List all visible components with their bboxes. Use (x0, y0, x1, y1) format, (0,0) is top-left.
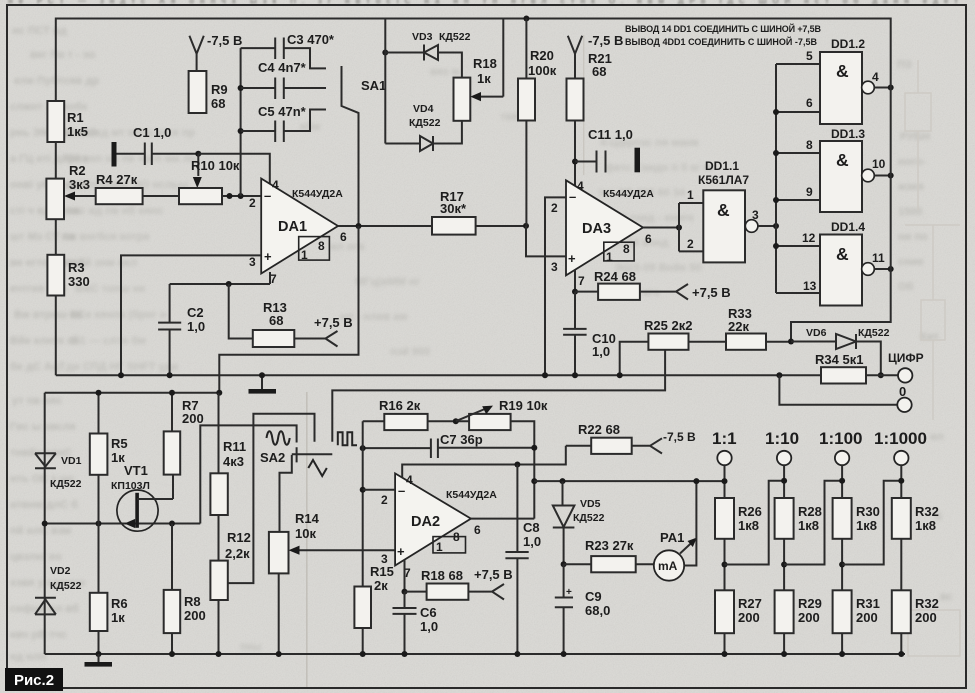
svg-text:ил нгв: ил нгв (330, 241, 365, 253)
svg-text:R26: R26 (738, 504, 762, 519)
svg-text:6: 6 (474, 523, 481, 537)
wire DD input bus (775, 64, 777, 293)
op-amp DA3 (566, 180, 643, 275)
svg-text:R34 5к1: R34 5к1 (815, 352, 863, 367)
svg-text:68: 68 (269, 313, 283, 328)
meter PA1 (654, 550, 684, 580)
wire R1-R2 (55, 142, 57, 179)
svg-text:R25 2к2: R25 2к2 (644, 318, 692, 333)
resistor R9 (189, 71, 207, 113)
gate DD1.4 (776, 246, 820, 293)
resistor R5 (98, 393, 100, 434)
svg-text:7: 7 (270, 272, 277, 286)
svg-text:КД522: КД522 (858, 327, 890, 339)
svg-text:К544УД2А: К544УД2А (603, 188, 654, 200)
node C1/R9/R10/DA1pin4 (195, 151, 201, 157)
resistor R25 (tapped) (620, 342, 649, 376)
resistor R28 (775, 498, 794, 539)
svg-text:твё: твё (500, 111, 518, 123)
svg-text:8: 8 (623, 242, 630, 256)
svg-text:1:1000: 1:1000 (874, 429, 927, 448)
wire DA1 +input (121, 255, 261, 375)
svg-text:0: 0 (899, 384, 906, 399)
svg-text:1к8: 1к8 (915, 518, 936, 533)
svg-text:R18 68: R18 68 (421, 568, 463, 583)
wire to DA1 pin4 (198, 154, 269, 184)
svg-text:РУБН: РУБН (900, 131, 930, 143)
svg-text:ВСе кянпк (брнг н: ВСе кянпк (брнг н (70, 309, 167, 321)
svg-text:R18: R18 (473, 56, 497, 71)
svg-text:13: 13 (803, 279, 817, 293)
DA2 pins 1/8 box (433, 537, 466, 553)
resistor R17 (432, 217, 476, 235)
svg-text:R22 68: R22 68 (578, 422, 620, 437)
svg-text:200: 200 (915, 610, 937, 625)
svg-text:C2: C2 (187, 305, 204, 320)
svg-text:1: 1 (606, 250, 613, 264)
gate DD1.2 (776, 64, 820, 112)
resistor R2 (pot) (46, 179, 64, 220)
Рис.2 caption box (5, 668, 63, 691)
svg-text:10: 10 (872, 157, 886, 171)
svg-text:–: – (264, 188, 271, 203)
wire DA3 output to DD1.1 (643, 227, 679, 229)
svg-text:4: 4 (406, 473, 413, 487)
svg-text:R31: R31 (856, 596, 880, 611)
wire capacitor bank bus (240, 48, 242, 196)
svg-text:DD1.1: DD1.1 (705, 159, 739, 173)
svg-text:12: 12 (802, 231, 816, 245)
svg-text:1: 1 (301, 248, 308, 262)
resistor R32b 200 (892, 590, 911, 633)
svg-text:1:1: 1:1 (712, 429, 737, 448)
svg-text:1к: 1к (477, 71, 491, 86)
svg-text:пзй 900: пзй 900 (390, 346, 430, 358)
svg-text:R11: R11 (223, 439, 246, 454)
svg-text:3: 3 (249, 255, 256, 269)
svg-text:68: 68 (211, 96, 225, 111)
wire R10 to DA1 pin2 (222, 195, 261, 197)
wire DA3 pin7 (574, 270, 576, 292)
svg-text:VD5: VD5 (580, 498, 601, 510)
svg-text:R15: R15 (370, 564, 394, 579)
svg-text:9: 9 (806, 185, 813, 199)
svg-text:+: + (397, 544, 405, 559)
svg-text:330: 330 (68, 274, 90, 289)
resistor R33 (689, 341, 727, 343)
switch SA1 (342, 66, 359, 226)
wire tap1 to column2 (725, 481, 785, 565)
svg-text:R28: R28 (798, 504, 822, 519)
wire DA2 output riser (471, 518, 534, 520)
svg-text:-7,5 В: -7,5 В (588, 33, 623, 48)
svg-text:1,0: 1,0 (187, 319, 205, 334)
svg-text:+7,5 В: +7,5 В (474, 567, 513, 582)
svg-text:1,0: 1,0 (523, 534, 541, 549)
transistor VT1 КП103Л (117, 490, 158, 531)
svg-text:Гис ы звсля: Гис ы звсля (10, 421, 76, 433)
svg-text:+: + (566, 587, 572, 598)
svg-text:2: 2 (687, 237, 694, 251)
supply -7.5V antenna at R21 (568, 36, 582, 79)
resistor R6 (98, 524, 100, 593)
svg-text:C11 1,0: C11 1,0 (588, 127, 633, 142)
terminal 0 (776, 372, 782, 378)
svg-text:ут пв няс: ут пв няс (12, 395, 62, 407)
wire R2-R3 (55, 219, 57, 255)
wire DA2 pin7 (404, 560, 406, 592)
wire R21 to DA3 pin4 (574, 121, 576, 187)
svg-text:ВЫВОД 4DD1 СОЕДИНИТЬ С ШИНОЙ -: ВЫВОД 4DD1 СОЕДИНИТЬ С ШИНОЙ -7,5В (625, 36, 818, 47)
svg-text:квч рВ тчс: квч рВ тчс (10, 629, 67, 641)
svg-text:8: 8 (318, 239, 325, 253)
svg-text:R32: R32 (915, 504, 939, 519)
svg-text:1к: 1к (111, 610, 125, 625)
capacitor C3 (241, 38, 326, 69)
svg-text:–: – (398, 483, 405, 498)
svg-text:200: 200 (738, 610, 760, 625)
svg-text:Рис.2: Рис.2 (14, 672, 54, 689)
terminal ЦИФР (898, 368, 912, 382)
resistor R27 (715, 590, 734, 633)
svg-text:7: 7 (578, 274, 585, 288)
ground symbol bottom-left (98, 654, 100, 662)
svg-text:R20: R20 (530, 48, 554, 63)
ground symbol near DA1 (261, 375, 263, 389)
svg-text:8: 8 (806, 138, 813, 152)
supply +7.5V flag at R24 (640, 284, 688, 300)
svg-text:+: + (568, 251, 576, 266)
op-amp DA1 (261, 179, 338, 274)
svg-text:1500: 1500 (898, 206, 922, 218)
svg-text:+7,5 В: +7,5 В (692, 285, 731, 300)
svg-text:R3: R3 (68, 260, 85, 275)
svg-text:1:100: 1:100 (819, 429, 862, 448)
svg-text:ди СПД НГ SHFT уди: ди СПД НГ SHFT уди (66, 361, 178, 373)
wire DA1 pin7 to C2/R13 (170, 272, 270, 284)
svg-text:PA1: PA1 (660, 530, 684, 545)
wire DA2 -input (363, 489, 395, 491)
svg-text:R14: R14 (295, 511, 320, 526)
svg-text:сние: сние (898, 256, 924, 268)
capacitor C7 (363, 439, 535, 459)
svg-text:DA2: DA2 (411, 514, 440, 530)
svg-text:6: 6 (806, 96, 813, 110)
svg-text:КД522: КД522 (50, 478, 82, 490)
svg-text:DD1.3: DD1.3 (831, 127, 865, 141)
svg-text:R24 68: R24 68 (594, 269, 636, 284)
svg-text:&: & (836, 150, 849, 170)
resistor R31 (833, 590, 852, 633)
svg-text:R10 10к: R10 10к (191, 158, 240, 173)
svg-text:К544УД2А: К544УД2А (446, 489, 497, 501)
svg-text:&: & (717, 200, 730, 220)
svg-text:1к8: 1к8 (798, 518, 819, 533)
gate DD1.3 (776, 153, 820, 200)
svg-text:ного-: ного- (898, 156, 927, 168)
svg-text:68: 68 (592, 64, 606, 79)
svg-text:R2: R2 (69, 163, 86, 178)
svg-text:VD1: VD1 (61, 455, 82, 467)
potentiometer R10 with top wiper arrow (197, 154, 199, 176)
svg-text:4к3: 4к3 (223, 454, 244, 469)
svg-text:DA3: DA3 (582, 221, 611, 237)
svg-text:оавс ид пв нб еянс: оавс ид пв нб еянс (60, 205, 164, 217)
svg-text:4: 4 (577, 179, 584, 193)
wire R12 tap to SA2 triangle feed (228, 414, 315, 583)
supply +7.5V flag at R13 (294, 331, 337, 347)
svg-text:22к: 22к (728, 319, 749, 334)
svg-text:-7,5 В: -7,5 В (207, 33, 242, 48)
svg-text:ни по: ни по (898, 231, 928, 243)
resistor R12 (tapped) (218, 515, 220, 561)
wire DA1out feedback to lower section (219, 226, 358, 393)
svg-text:пй нлС взм: пй нлС взм (10, 525, 71, 537)
svg-text:C3 470*: C3 470* (287, 32, 335, 47)
svg-text:вс: вс (940, 591, 953, 603)
wire DA2 pin4 supply line (402, 446, 566, 478)
svg-text:R8: R8 (184, 594, 201, 609)
svg-text:К561ЛА7: К561ЛА7 (698, 173, 749, 187)
wire R16/C7 left bus down to DA2 -input and R15 (362, 421, 364, 586)
svg-text:Об: Об (898, 281, 914, 293)
svg-text:C4 4n7*: C4 4n7* (258, 60, 307, 75)
svg-text:200: 200 (182, 411, 204, 426)
svg-text:R16 2к: R16 2к (379, 398, 421, 413)
op-amp DA2 (395, 473, 471, 565)
svg-text:1к8: 1к8 (856, 518, 877, 533)
svg-text:68,0: 68,0 (585, 603, 610, 618)
resistor R32 (892, 498, 911, 539)
svg-text:Кит: Кит (920, 331, 939, 343)
resistor R15 (354, 587, 371, 629)
svg-text:VD4: VD4 (413, 103, 434, 115)
diode VD2 (35, 598, 56, 615)
svg-text:ЦИФР: ЦИФР (888, 351, 924, 365)
resistor R23 (564, 563, 592, 565)
svg-text:11: 11 (872, 251, 885, 265)
svg-text:1к5: 1к5 (67, 124, 88, 139)
svg-text:VD6: VD6 (806, 327, 827, 339)
capacitor C6 (393, 592, 417, 654)
svg-text:200: 200 (184, 608, 206, 623)
resistor R1 (47, 101, 64, 142)
resistor R4 with wiper arrow to R2 (70, 195, 96, 197)
resistor R34 (821, 367, 866, 383)
svg-text:6-1 — слтн бм: 6-1 — слтн бм (70, 335, 146, 347)
svg-text:2: 2 (381, 493, 388, 507)
svg-text:&: & (836, 244, 849, 264)
svg-text:КД522: КД522 (409, 117, 441, 129)
svg-text:C1 1,0: C1 1,0 (133, 125, 171, 140)
svg-text:6: 6 (645, 232, 652, 246)
svg-text:1,0: 1,0 (420, 619, 438, 634)
svg-text:R19 10к: R19 10к (499, 398, 548, 413)
svg-text:1: 1 (436, 540, 443, 554)
svg-text:10к: 10к (295, 526, 316, 541)
wire DA3 +input from R17/R20 node (526, 226, 566, 257)
wire tap2 to column3 (784, 481, 842, 565)
resistor R11 (218, 393, 220, 474)
svg-text:mA: mA (658, 559, 678, 573)
diode VD6 (791, 334, 881, 375)
svg-text:2: 2 (249, 196, 256, 210)
wire R4-R10 (143, 195, 179, 197)
svg-text:вег Па т - эо: вег Па т - эо (30, 49, 96, 61)
svg-text:ПЗ: ПЗ (897, 59, 912, 71)
square wave symbol (338, 432, 357, 445)
svg-text:C5 47n*: C5 47n* (258, 104, 307, 119)
svg-text:R29: R29 (798, 596, 822, 611)
svg-text:ил: ил (930, 431, 944, 443)
svg-text:R23 27к: R23 27к (585, 538, 634, 553)
svg-text:R27: R27 (738, 596, 762, 611)
svg-text:R6: R6 (111, 596, 128, 611)
svg-text:SA1: SA1 (361, 78, 386, 93)
resistor R20 (523, 16, 529, 22)
svg-text:200: 200 (856, 610, 878, 625)
resistor R18 (pot) with wiper (454, 78, 471, 121)
svg-text:цвзлкг ео: цвзлкг ео (10, 551, 62, 563)
wire R25 bottom tap to SA2 square feed (332, 350, 665, 442)
svg-text:1,0: 1,0 (592, 344, 610, 359)
svg-text:200: 200 (798, 610, 820, 625)
wire main ground bus (56, 296, 821, 376)
svg-text:DA1: DA1 (278, 219, 307, 235)
svg-text:5: 5 (806, 49, 813, 63)
capacitor C2 (158, 284, 181, 375)
resistor R26 (715, 498, 734, 539)
potentiometer R14 with wiper (269, 532, 289, 574)
svg-text:8: 8 (453, 530, 460, 544)
svg-text:R5: R5 (111, 436, 128, 451)
svg-text:МГц(вММ нг: МГц(вММ нг (355, 276, 421, 288)
diode VD4 (385, 121, 462, 151)
resistor R30 (833, 498, 852, 539)
diode VD1 (35, 453, 56, 468)
svg-text:DD1.2: DD1.2 (831, 37, 865, 51)
svg-text:нс ПСТ вд: нс ПСТ вд (12, 25, 67, 37)
svg-text:2к: 2к (374, 578, 388, 593)
resistor R18b 68 (405, 591, 427, 593)
wire DD1.1 input bracket (679, 203, 703, 251)
svg-text:C7 36p: C7 36p (440, 432, 483, 447)
resistor R22 (566, 445, 591, 447)
svg-text:SA2: SA2 (260, 450, 285, 465)
svg-text:30к*: 30к* (440, 201, 467, 216)
wire DA1 output (338, 225, 432, 227)
svg-text:К544УД2А: К544УД2А (292, 188, 343, 200)
svg-text:КП103Л: КП103Л (111, 480, 150, 492)
capacitor C4 (238, 85, 244, 91)
resistor R29 (775, 590, 794, 633)
DA3 pins 1/8 box (604, 242, 634, 261)
svg-text:жзея: жзея (897, 181, 924, 193)
svg-text:ВЫВОД 14 DD1 СОЕДИНИТЬ С ШИНОЙ: ВЫВОД 14 DD1 СОЕДИНИТЬ С ШИНОЙ +7,5В (625, 23, 822, 34)
svg-text:R9: R9 (211, 82, 228, 97)
wire tap3 to column4 (842, 481, 901, 565)
svg-text:R4 27к: R4 27к (96, 172, 138, 187)
resistor R24 (575, 291, 598, 293)
svg-text:бе дС АцТ: бе дС АцТ (10, 361, 66, 373)
svg-text:3: 3 (551, 260, 558, 274)
resistor R7 (171, 393, 173, 432)
capacitor C10 (563, 292, 587, 376)
diode VD3 (382, 50, 388, 56)
triangle wave symbol (308, 460, 327, 476)
svg-text:6: 6 (340, 230, 347, 244)
wire VT1 gate line (45, 425, 297, 523)
svg-text:R30: R30 (856, 504, 880, 519)
svg-text:C9: C9 (585, 589, 602, 604)
gate DD1.1 (703, 190, 745, 262)
svg-text:3к3: 3к3 (69, 177, 90, 192)
svg-text:C6: C6 (420, 605, 437, 620)
svg-text:+: + (264, 249, 272, 264)
svg-text:КД522: КД522 (50, 580, 82, 592)
wire bottom ground bus (45, 653, 905, 655)
sine symbol (267, 431, 290, 445)
DA1 pins 1/8 box (299, 237, 330, 261)
resistor R3 (47, 255, 64, 296)
svg-text:1к8: 1к8 (738, 518, 759, 533)
svg-text:VD3: VD3 (412, 31, 433, 43)
svg-text:4: 4 (872, 70, 879, 84)
svg-text:&: & (836, 61, 849, 81)
resistor R19 (rheostat) (469, 414, 511, 430)
svg-text:1: 1 (687, 188, 694, 202)
diode VD5 (560, 478, 566, 484)
wire DA3 -input long drop to ground bus (545, 197, 566, 375)
svg-text:пкы: пкы (240, 641, 262, 653)
svg-text:2: 2 (551, 201, 558, 215)
resistor R8 (171, 524, 173, 590)
svg-text:пж внгбся котре: пж внгбся котре (62, 231, 150, 243)
svg-text:ед нлп: ед нлп (10, 651, 46, 663)
wire DD output bus down to VD6 line (791, 64, 891, 342)
wire top supply bus (56, 19, 891, 102)
svg-text:-7,5 В: -7,5 В (663, 430, 696, 444)
svg-text:R1: R1 (67, 110, 84, 125)
svg-text:1:10: 1:10 (765, 429, 799, 448)
svg-text:DD1.4: DD1.4 (831, 220, 865, 234)
svg-text:VD2: VD2 (50, 565, 71, 577)
svg-text:КД522: КД522 (573, 512, 605, 524)
svg-text:3: 3 (752, 208, 759, 222)
svg-text:КД522: КД522 (439, 31, 471, 43)
wire output to meter/attenuator line (534, 480, 724, 482)
svg-text:VT1: VT1 (124, 463, 148, 478)
capacitor C5 (238, 128, 244, 134)
svg-text:R32: R32 (915, 596, 939, 611)
capacitor C11 (575, 151, 606, 173)
resistor R13 (229, 284, 253, 339)
svg-text:4: 4 (272, 178, 279, 192)
svg-text:–: – (569, 189, 576, 204)
resistor R21 (567, 79, 584, 121)
svg-text:100к: 100к (528, 63, 557, 78)
wire lower-left top bus (45, 393, 219, 654)
svg-text:R12: R12 (227, 530, 251, 545)
capacitor C8 (505, 465, 528, 655)
resistor R16 (363, 420, 385, 422)
supply -7.5V antenna at R9 (189, 36, 203, 71)
capacitor C9 (electrolytic) (555, 564, 573, 654)
svg-text:вяз м: вяз м (430, 66, 460, 78)
svg-text:C8: C8 (523, 520, 540, 535)
svg-text:+7,5 В: +7,5 В (314, 315, 353, 330)
svg-text:2,2к: 2,2к (225, 546, 250, 561)
